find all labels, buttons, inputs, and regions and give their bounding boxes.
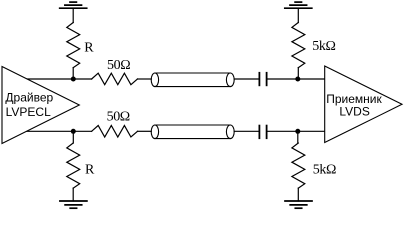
node D (junction dot, bottom-right) [295, 129, 300, 134]
wire: top-right ground to resistor R3 [297, 8, 299, 22]
svg-text:5kΩ: 5kΩ [313, 163, 336, 178]
wire: resistor R3 to node B [297, 68, 299, 79]
capacitor C1 (top coupling cap) [259, 73, 266, 86]
wire: 50 ohm to transmission line T2 [138, 130, 152, 132]
node B (junction dot, top-right) [295, 77, 300, 82]
resistor R2 (50 ohm, top series) [92, 73, 138, 85]
wire: 50 ohm to transmission line T1 [138, 78, 152, 80]
wire: node C to resistor R5 [72, 131, 74, 143]
svg-text:LVDS: LVDS [339, 105, 369, 119]
resistor R1 (R, top-left pulldown) [67, 23, 80, 68]
node C (junction dot, bottom-left) [71, 129, 76, 134]
wire: capacitor C2 to node D [267, 130, 324, 132]
svg-text:50Ω: 50Ω [107, 58, 130, 73]
ground GND top-left [60, 2, 87, 8]
svg-text:LVPECL: LVPECL [6, 105, 51, 119]
svg-text:R: R [84, 41, 94, 56]
wire: node D to resistor R6 [297, 131, 299, 143]
resistor R3 (5k ohm, top-right pullup) [292, 23, 305, 68]
wire: capacitor C1 to node B [267, 78, 324, 80]
wire: top-left ground to resistor R1 [72, 8, 74, 22]
ground GND top-right [285, 2, 312, 8]
transmission line T1 (top coax cylinder) [151, 73, 234, 87]
op-amp U1 (LVPECL driver triangle) [2, 67, 79, 144]
wire: resistor R1 to node A [72, 68, 74, 79]
svg-text:R: R [85, 163, 95, 178]
transmission line T2 (bottom coax cylinder) [151, 125, 234, 139]
ground GND bottom-left [60, 201, 87, 208]
resistor R5 (R, bottom-left pulldown) [67, 143, 80, 188]
ground GND bottom-right [285, 201, 312, 208]
wire: transmission line T2 to capacitor C2 [234, 130, 258, 132]
svg-text:50Ω: 50Ω [107, 109, 130, 124]
resistor R4 (50 ohm, bottom series) [92, 126, 138, 138]
wire: driver lower output to node C [27, 130, 92, 132]
svg-text:Драйвер: Драйвер [5, 91, 53, 105]
node A (junction dot, top-left) [71, 77, 76, 82]
op-amp U2 (LVDS receiver triangle) [325, 66, 402, 143]
wire: resistor R5 to bottom-left ground [72, 188, 74, 201]
capacitor C2 (bottom coupling cap) [259, 126, 266, 139]
wire: driver upper output to node A [27, 78, 92, 80]
wire: resistor R6 to bottom-right ground [297, 188, 299, 201]
wire: transmission line T1 to capacitor C1 [234, 78, 258, 80]
resistor R6 (5k ohm, bottom-right pulldown) [292, 143, 305, 188]
svg-text:5kΩ: 5kΩ [312, 39, 335, 54]
